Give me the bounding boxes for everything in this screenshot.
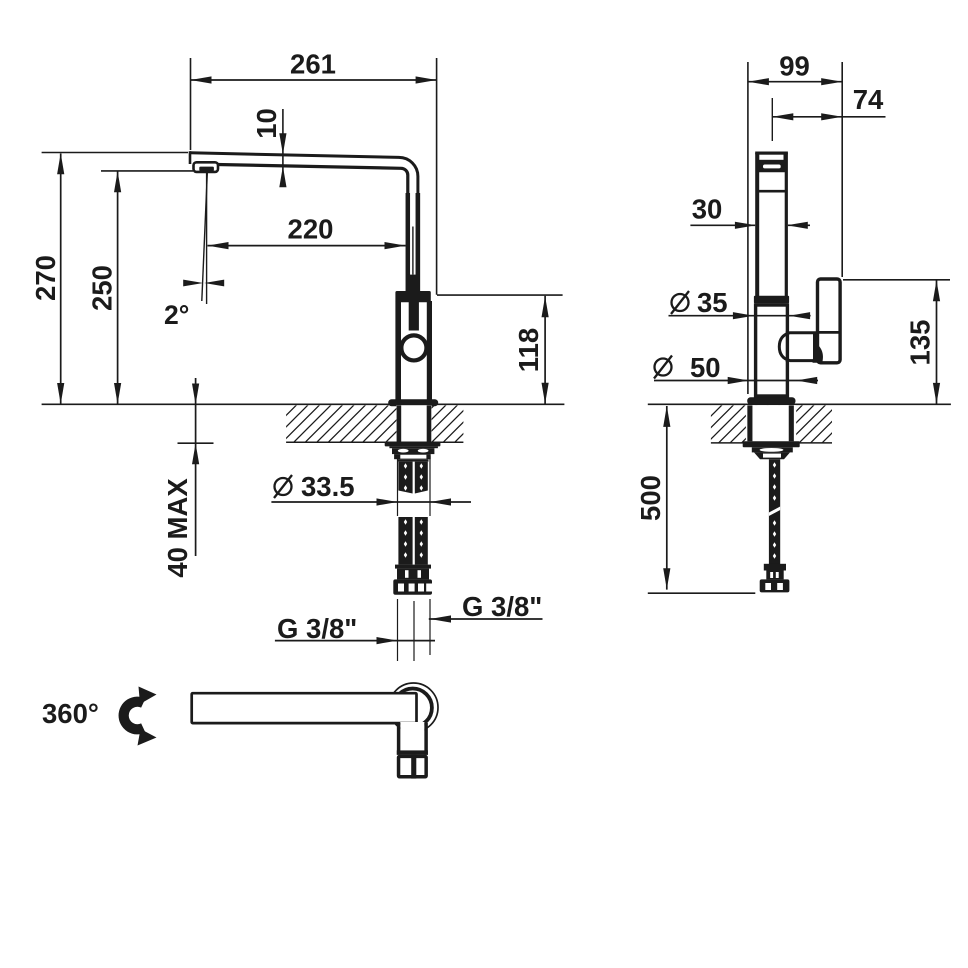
svg-text:G 3/8": G 3/8" xyxy=(277,613,357,644)
G 3/8 inch connection labels xyxy=(397,599,399,661)
supply hoses upper segment xyxy=(398,462,412,494)
dimension diameter 33.5 (mounting hole) xyxy=(397,456,399,516)
svg-text:33.5: 33.5 xyxy=(301,471,355,502)
svg-text:118: 118 xyxy=(513,328,544,372)
base flange (side view) xyxy=(388,399,438,406)
svg-text:220: 220 xyxy=(288,214,334,245)
dimension 220 (spout projection) xyxy=(208,245,406,247)
dimension 99 (body depth) xyxy=(747,62,749,394)
svg-text:135: 135 xyxy=(905,320,936,366)
svg-text:360°: 360° xyxy=(42,698,99,729)
handle pivot joint (front view) xyxy=(779,333,814,361)
svg-text:261: 261 xyxy=(290,49,336,80)
svg-text:10: 10 xyxy=(251,108,282,139)
faucet body front view xyxy=(755,152,788,297)
svg-text:500: 500 xyxy=(635,475,666,521)
outlet block (bottom view) xyxy=(400,722,424,753)
svg-text:G 3/8": G 3/8" xyxy=(462,591,542,622)
svg-text:2°: 2° xyxy=(164,300,189,330)
locknut under counter (front view) xyxy=(743,441,800,447)
flexible supply hose (front view) xyxy=(769,459,780,564)
faucet body side view with ball joint xyxy=(407,275,420,292)
dimension 74 (handle offset) xyxy=(771,98,773,141)
dimension 270 (spout height) xyxy=(42,152,188,154)
diameter 35 ring (front view) xyxy=(754,296,789,304)
dimension 10 (spout thickness) xyxy=(282,109,284,186)
svg-text:270: 270 xyxy=(30,255,61,301)
base flange (front view) xyxy=(747,397,795,404)
dimension 261 (overall spout reach) xyxy=(190,58,192,150)
handle (front view) xyxy=(818,279,841,363)
countertop section (side view) xyxy=(42,403,565,405)
dimension diameter 35 xyxy=(669,315,811,317)
hose end fitting (front view) xyxy=(764,564,786,571)
countertop section (front view) xyxy=(648,403,951,405)
svg-text:50: 50 xyxy=(690,352,721,383)
dimension diameter 50 xyxy=(654,380,818,382)
supply hoses lower segment xyxy=(398,517,412,565)
dimension 118 (body height) xyxy=(437,294,563,296)
svg-text:250: 250 xyxy=(87,265,118,311)
svg-text:40 MAX: 40 MAX xyxy=(162,478,193,578)
dimension 40 MAX (counter thickness) xyxy=(195,378,197,556)
hose end fittings (side view) xyxy=(395,565,431,569)
locknut under counter (side view) xyxy=(385,442,441,447)
spout tube side view xyxy=(190,153,418,292)
360 degree rotation arrow xyxy=(124,702,144,730)
aerator (side view) xyxy=(194,162,219,172)
svg-text:30: 30 xyxy=(692,194,723,225)
spout (bottom view) with swivel circles xyxy=(389,683,438,732)
dimension 500 (hose length) xyxy=(666,406,668,590)
lower body front view xyxy=(756,305,788,396)
dimension 250 (aerator height) xyxy=(101,170,193,172)
angle 2 degrees (spout slope) xyxy=(206,173,208,304)
dimension 135 (handle height) xyxy=(843,279,950,281)
svg-text:99: 99 xyxy=(779,51,810,82)
svg-text:74: 74 xyxy=(853,84,884,115)
svg-text:35: 35 xyxy=(697,287,728,318)
dimension 30 (body width) xyxy=(690,224,810,226)
